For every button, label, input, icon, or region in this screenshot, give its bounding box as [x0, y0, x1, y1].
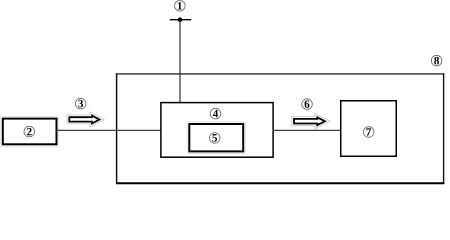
node: junction dot [178, 17, 183, 22]
outer box 8 [116, 73, 444, 184]
label 4 (circled digit) [210, 108, 221, 119]
box 7 [341, 101, 397, 157]
label 6 (circled digit) [302, 99, 313, 110]
label 3 (circled digit) [75, 98, 86, 109]
label 2 (circled digit) [24, 126, 35, 137]
wire: vertical from junction down to box 4 [179, 20, 181, 104]
wire: box 4 to box 7 [273, 129, 341, 131]
label 7 (circled digit) [363, 127, 374, 138]
label 1 (circled digit) [175, 1, 186, 12]
box 2 [3, 119, 57, 145]
box 5 [189, 124, 243, 151]
label 5 (circled digit) [209, 133, 220, 144]
arrow 6 (hollow block arrow) [294, 117, 325, 125]
label 8 (circled digit) [431, 55, 442, 66]
wire: box 2 to box 4 [56, 129, 161, 131]
wire: horizontal stub at top junction [170, 19, 191, 21]
arrow 3 (hollow block arrow) [69, 116, 99, 124]
box 4 [161, 103, 273, 158]
